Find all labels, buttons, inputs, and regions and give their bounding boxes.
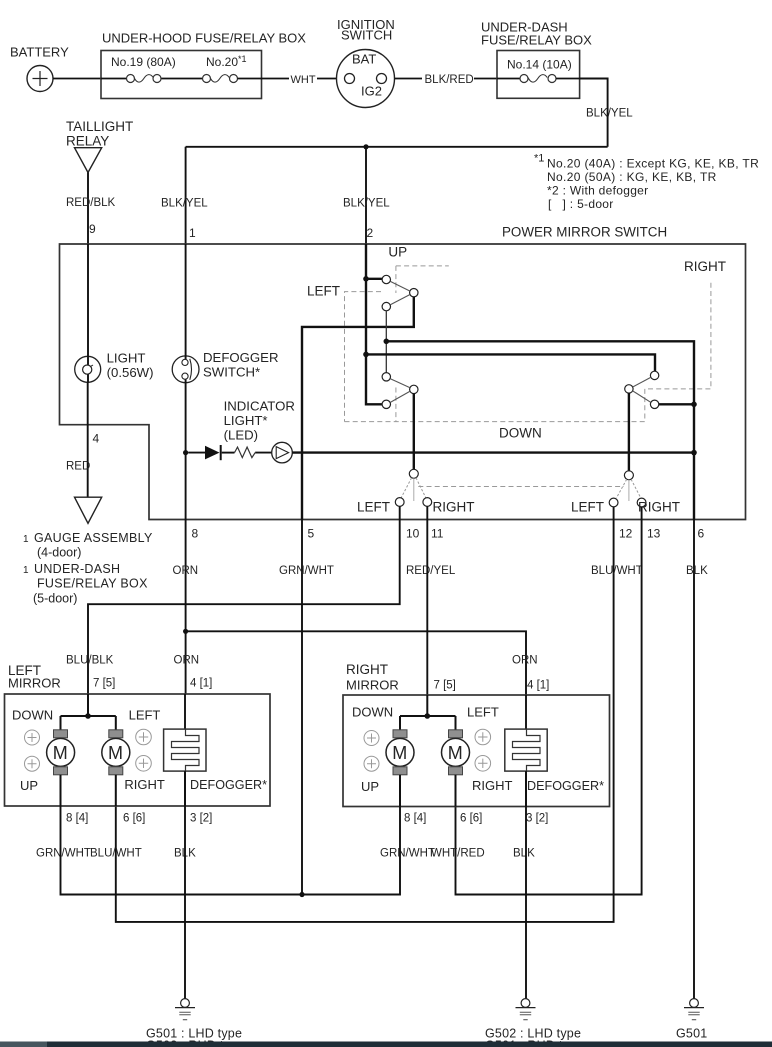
svg-text:RED: RED [66,461,90,473]
svg-text:FUSE/RELAY BOX: FUSE/RELAY BOX [481,33,592,48]
svg-text:GRN/WHT: GRN/WHT [380,848,435,860]
svg-text:FUSE/RELAY BOX: FUSE/RELAY BOX [37,577,148,591]
svg-text:13: 13 [647,527,661,541]
svg-text:WHT/RED: WHT/RED [431,848,485,860]
svg-text:*1: *1 [534,153,544,165]
svg-text:BLK: BLK [686,565,708,577]
fuse No.14 (10A) [497,58,580,83]
switch contact G [382,400,390,408]
motor M3 up/down [386,730,414,775]
motor M1 up/down [47,730,75,775]
svg-text:TAILLIGHT: TAILLIGHT [66,119,133,134]
wire BLK left mirror to ground [184,806,186,999]
svg-text:BLK: BLK [513,848,535,860]
right mirror title [346,662,399,693]
selector contact 10 [395,498,404,507]
polarity marks right mirror right column [475,729,491,771]
svg-text:6 [6]: 6 [6] [460,813,482,825]
selector contact 13 [637,498,646,507]
svg-text:SWITCH: SWITCH [341,28,392,43]
wire BLK/YEL from under-dash box down [580,79,634,147]
svg-text:GRN/WHT: GRN/WHT [36,848,91,860]
junction node [363,144,368,149]
power mirror switch box [60,225,746,520]
wire pin6 BLK to ground [686,520,708,999]
wire stub to contact A [366,278,382,280]
dashed position linkage UP [396,266,449,422]
svg-text:RIGHT: RIGHT [472,778,513,793]
svg-text:8: 8 [192,527,199,541]
svg-text:2: 2 [367,226,374,240]
svg-text:[ ] : 5-door: [ ] : 5-door [548,197,614,211]
blade G-E [390,391,410,402]
blade RC-T1 [633,377,651,387]
selector common RF [624,471,633,480]
right switch contact T1 [650,371,658,379]
svg-text:BLK/YEL: BLK/YEL [161,198,208,210]
defogger element left [164,694,267,792]
svg-text:BLU/BLK: BLU/BLK [66,655,114,667]
svg-text:WHT: WHT [291,74,316,86]
selector common F [409,469,418,478]
svg-text:BLK/YEL: BLK/YEL [586,108,633,120]
wire T2 to pin6 net [659,403,694,405]
svg-text:RED/BLK: RED/BLK [66,197,116,209]
svg-text:MIRROR: MIRROR [346,678,399,693]
motor and defogger output wires left [61,771,186,806]
ground G502 [485,999,581,1041]
node GRN/WHT joins pin5 [299,892,304,897]
svg-text:8 [4]: 8 [4] [404,813,426,825]
svg-text:(0.56W): (0.56W) [107,365,154,380]
svg-text:3 [2]: 3 [2] [526,813,548,825]
svg-text:INDICATOR: INDICATOR [224,399,295,414]
switch contact A [382,275,390,283]
wire pin2 feed to right switch [366,354,655,371]
svg-text:BLU/WHT: BLU/WHT [90,848,142,860]
node ORN branch [183,629,188,634]
svg-text:DEFOGGER*: DEFOGGER* [527,779,604,793]
wire light to pin 4 [66,382,100,497]
node pin2 to right switch feed [363,352,369,358]
svg-text:LEFT: LEFT [571,500,604,515]
svg-text:LIGHT*: LIGHT* [224,413,268,428]
svg-text:M: M [448,743,463,763]
svg-text:DEFOGGER*: DEFOGGER* [190,778,267,792]
node motor bus [85,713,91,719]
svg-text:No.20 (40A) : Except KG, KE, K: No.20 (40A) : Except KG, KE, KB, TR [547,157,759,171]
svg-text:DOWN: DOWN [352,705,393,720]
svg-text:DEFOGGER: DEFOGGER [203,350,278,365]
dashed position linkage LEFT [345,292,382,422]
svg-text:ORN: ORN [174,655,200,667]
svg-text:UP: UP [361,779,379,794]
selector contact 12 [609,498,618,507]
svg-text:1: 1 [23,534,29,545]
svg-text:6 [6]: 6 [6] [123,813,145,825]
dashed selector linkage [418,486,624,488]
svg-text:(4-door): (4-door) [37,546,81,560]
svg-text:ORN: ORN [173,565,199,577]
ignition switch [337,17,395,108]
selector F blades [413,478,415,501]
polarity marks right mirror left column [364,731,379,772]
svg-text:RIGHT: RIGHT [124,777,164,792]
wire common E to selector F [413,394,415,469]
svg-text:DOWN: DOWN [12,708,53,723]
svg-text:BLU/WHT: BLU/WHT [591,565,643,577]
svg-text:10: 10 [406,527,420,541]
ground G501 right [676,999,707,1041]
svg-text:M: M [53,743,68,763]
wire pin 2 into switch [366,244,382,404]
svg-text:No.19 (80A): No.19 (80A) [111,55,176,69]
node motor bus right [425,713,431,719]
defogger element right [505,695,604,793]
selector contact 11 [423,498,432,507]
svg-text:UNDER-DASH: UNDER-DASH [34,562,120,576]
blade RC-T2 [633,391,651,402]
svg-text:7 [5]: 7 [5] [93,678,115,690]
svg-text:No.20*1: No.20*1 [206,54,247,69]
resistor R [222,447,272,458]
wire LED to ground net [292,451,694,453]
footnote *1 No.20 ratings [534,153,759,212]
wire pin11 to right mirror 7 [426,506,428,695]
selector RF blades [628,480,630,501]
wire pin5 GRN/WHT down [279,520,334,895]
svg-text:6: 6 [698,527,705,541]
svg-text:LEFT: LEFT [357,500,390,515]
wire GRN/WHT bus both mirrors [61,806,401,895]
blade D-E [390,379,410,388]
wire BLK/RED [395,74,498,86]
svg-text:11: 11 [431,527,444,541]
taillight relay [66,119,133,173]
fuse No.19 (80A) [101,55,202,83]
svg-text:IG2: IG2 [361,84,382,99]
wire ORN branch to right mirror 4 [186,631,526,695]
dashed position linkage DOWN [345,280,711,421]
under-hood fuse/relay box [101,31,306,99]
wire common RC to selector RF [628,393,630,471]
svg-text:UNDER-HOOD FUSE/RELAY BOX: UNDER-HOOD FUSE/RELAY BOX [102,31,306,46]
svg-text:G501: G501 [676,1027,707,1041]
indicator light label [224,399,295,443]
svg-text:ORN: ORN [512,655,538,667]
switch contact D [382,373,390,381]
motor M4 left/right [442,730,470,775]
note gauge assembly / under-dash box [23,531,153,606]
svg-text:RIGHT: RIGHT [638,500,680,515]
pin numbers bottom of switch [192,527,705,541]
svg-text:(LED): (LED) [224,428,258,443]
svg-text:POWER MIRROR SWITCH: POWER MIRROR SWITCH [502,225,667,240]
svg-text:UP: UP [20,778,38,793]
svg-text:DOWN: DOWN [499,426,542,441]
wire pin10 RED/YEL to left mirror 7 [88,506,456,694]
svg-text:SWITCH*: SWITCH* [203,365,260,380]
svg-text:BATTERY: BATTERY [10,45,69,60]
polarity marks right column [136,729,152,771]
wire pin12 BLU/WHT to left mirror 6 [116,507,643,922]
svg-text:RIGHT: RIGHT [433,500,475,515]
svg-text:12: 12 [619,527,633,541]
blade A-B [390,281,410,291]
svg-text:1: 1 [189,226,196,240]
svg-text:5: 5 [308,527,315,541]
svg-text:*2 : With defogger: *2 : With defogger [547,184,648,198]
svg-text:9: 9 [89,222,96,236]
wire BLK/YEL pin 1 [161,147,208,244]
polarity marks left column [25,730,40,771]
svg-text:LEFT: LEFT [129,708,161,723]
svg-text:BAT: BAT [352,52,376,67]
wire common B to pin 5 [302,297,414,520]
LED indicator lamp [272,442,293,463]
wire pin8 ORN down [173,520,199,695]
diode D [188,445,221,460]
motor M2 left/right [102,730,130,775]
left mirror title [8,663,61,691]
blade C-B [390,295,410,305]
right switch common RC [625,385,633,393]
wire 7[5] to motor bus [61,694,116,730]
right mirror box [343,695,610,807]
svg-text:No.20 (50A) : KG, KE, KB, TR: No.20 (50A) : KG, KE, KB, TR [547,170,717,184]
svg-text:GAUGE ASSEMBLY: GAUGE ASSEMBLY [34,531,153,545]
arrow to gauge assembly [75,497,102,523]
svg-text:LEFT: LEFT [307,284,340,299]
svg-text:UP: UP [388,245,407,260]
wire BLK right mirror to ground [525,807,527,999]
switch contact C [382,302,390,310]
svg-text:(5-door): (5-door) [33,592,77,606]
svg-text:RED/YEL: RED/YEL [406,565,456,577]
light (0.56W) [75,244,154,382]
svg-text:4: 4 [93,432,100,446]
svg-text:4 [1]: 4 [1] [527,680,549,692]
svg-text:No.14 (10A): No.14 (10A) [507,58,572,72]
svg-text:4 [1]: 4 [1] [190,678,212,690]
svg-text:1: 1 [23,565,29,576]
svg-text:BLK/YEL: BLK/YEL [343,198,390,210]
svg-text:8 [4]: 8 [4] [66,813,88,825]
svg-text:M: M [108,743,123,763]
svg-text:RIGHT: RIGHT [684,259,726,274]
svg-text:GRN/WHT: GRN/WHT [279,565,334,577]
wire contact C to contact D [385,311,387,373]
battery [10,45,69,92]
motor and defogger output wires right [400,771,526,806]
wire bus to pins 1 and 2 [186,146,608,148]
switch common B [410,289,418,297]
under-dash fuse/relay box [481,20,592,99]
node on pin 8 wire [183,450,188,455]
wire defogger switch to pin 8 [185,383,187,520]
bottom scrollbar bar [0,1042,772,1047]
wire RED/BLK pin 9 [66,173,116,245]
svg-text:RELAY: RELAY [66,134,109,149]
svg-text:RIGHT: RIGHT [346,662,388,677]
fuse No.20 *1 [203,54,262,83]
wire neutral net to pin 6 [386,341,694,519]
svg-text:M: M [392,743,407,763]
svg-text:3 [2]: 3 [2] [190,813,212,825]
svg-text:MIRROR: MIRROR [8,676,61,691]
node T2 net [691,402,697,408]
svg-text:BLK/RED: BLK/RED [425,74,474,86]
svg-text:7 [5]: 7 [5] [434,680,456,692]
left mirror box [5,694,271,806]
wire 7[5] to motor bus right [400,695,456,730]
clipped RHD type text row [146,1039,583,1047]
node LED wire to pin 6 [691,450,697,456]
switch common E [410,385,418,393]
wire BLK/YEL pin 2 [343,147,390,244]
right switch contact T2 [650,400,658,408]
wire WHT [262,74,337,86]
wire battery to under-hood box [53,78,101,80]
node pin2 upper stub [363,276,369,282]
defogger switch [172,244,278,383]
wire pin13 to right mirror 6 [456,507,642,895]
svg-text:LEFT: LEFT [467,705,499,720]
ground G501 left [146,999,242,1041]
node ground tap on C-D [384,339,390,345]
svg-text:LIGHT: LIGHT [107,351,146,366]
